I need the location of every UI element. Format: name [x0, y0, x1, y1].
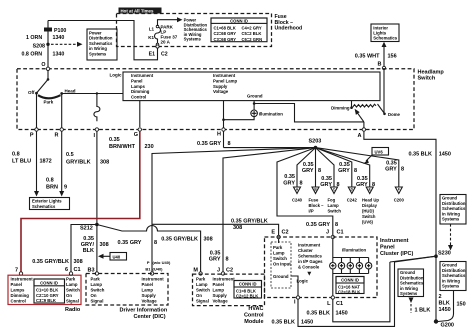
svg-text:BLK: BLK — [439, 301, 450, 307]
svg-text:I/P: I/P — [309, 209, 314, 214]
svg-text:Underhood: Underhood — [275, 25, 303, 31]
svg-text:C2=68 GRY: C2=68 GRY — [214, 31, 237, 36]
svg-text:Block –: Block – — [309, 203, 325, 208]
svg-text:Ground: Ground — [247, 94, 263, 99]
svg-text:0.35 GRY: 0.35 GRY — [118, 240, 142, 246]
svg-text:Systems: Systems — [442, 217, 460, 222]
svg-text:M: M — [193, 268, 198, 274]
svg-text:H: H — [217, 132, 221, 138]
svg-text:Systems: Systems — [400, 291, 418, 296]
svg-text:Head: Head — [65, 89, 76, 94]
svg-text:C1=68 BLK: C1=68 BLK — [214, 25, 236, 30]
svg-text:BRN: BRN — [46, 185, 58, 191]
svg-text:Cluster (IPC): Cluster (IPC) — [380, 251, 413, 257]
svg-text:C3=9 BLK: C3=9 BLK — [36, 298, 56, 303]
svg-text:Instrument: Instrument — [142, 277, 165, 282]
svg-text:GRY: GRY — [320, 182, 332, 188]
svg-text:1 ORN: 1 ORN — [26, 35, 42, 41]
svg-text:K1: K1 — [148, 35, 154, 40]
svg-text:Dimming: Dimming — [331, 106, 350, 111]
svg-text:BRN/WHT: BRN/WHT — [109, 144, 136, 150]
svg-text:P: P — [30, 133, 34, 139]
svg-text:E1: E1 — [149, 52, 155, 58]
svg-text:Voltage: Voltage — [213, 299, 229, 304]
svg-text:Panel: Panel — [11, 282, 22, 287]
svg-text:C1: C1 — [337, 230, 344, 236]
svg-text:1450: 1450 — [439, 307, 451, 313]
svg-text:C2: C2 — [161, 52, 168, 58]
svg-text:Panel: Panel — [213, 282, 224, 287]
svg-text:U40: U40 — [113, 254, 121, 259]
svg-text:Park: Park — [66, 277, 76, 282]
svg-text:Control: Control — [131, 95, 146, 100]
svg-text:Lamp: Lamp — [196, 282, 208, 287]
svg-text:L1: L1 — [149, 26, 155, 31]
svg-text:Panel Lamp: Panel Lamp — [213, 78, 237, 83]
svg-text:C6=2 GRN: C6=2 GRN — [242, 37, 263, 42]
svg-text:0.5: 0.5 — [66, 152, 74, 158]
svg-text:Lamp: Lamp — [213, 288, 225, 293]
svg-text:Logic: Logic — [110, 73, 122, 78]
svg-text:& Console: & Console — [298, 265, 320, 270]
svg-text:HVAC: HVAC — [248, 306, 263, 312]
svg-text:P100: P100 — [54, 28, 66, 34]
svg-text:Voltage: Voltage — [213, 89, 229, 94]
svg-text:0.35 GRY/BLK: 0.35 GRY/BLK — [161, 237, 198, 243]
svg-text:R: R — [55, 133, 59, 139]
svg-text:8: 8 — [318, 168, 321, 174]
svg-text:Lamps: Lamps — [11, 288, 25, 293]
svg-text:Switch: Switch — [196, 288, 210, 293]
svg-text:150: 150 — [457, 302, 466, 308]
svg-text:Park: Park — [91, 277, 101, 282]
svg-text:Lamp: Lamp — [91, 282, 103, 287]
svg-text:Schematics: Schematics — [32, 204, 56, 209]
svg-text:Illumination: Illumination — [259, 112, 283, 117]
svg-text:E: E — [271, 230, 275, 236]
svg-text:308: 308 — [74, 259, 83, 265]
svg-text:C1: C1 — [74, 267, 81, 273]
svg-text:E: E — [369, 188, 371, 192]
svg-text:1450: 1450 — [301, 320, 313, 326]
svg-text:C2=12 BLK: C2=12 BLK — [236, 294, 258, 299]
svg-text:0.35 GRY: 0.35 GRY — [306, 222, 330, 228]
svg-text:Hot at All Times: Hot at All Times — [121, 9, 154, 14]
svg-text:S208: S208 — [33, 44, 45, 50]
svg-text:GRY/BLK: GRY/BLK — [66, 160, 91, 166]
svg-text:0.35 WHT: 0.35 WHT — [355, 54, 380, 60]
svg-text:Switch: Switch — [273, 256, 287, 261]
svg-text:C3=68 GRY: C3=68 GRY — [214, 37, 237, 42]
svg-text:6: 6 — [65, 267, 68, 273]
svg-text:On: On — [66, 293, 72, 298]
svg-text:Instrument: Instrument — [11, 277, 34, 282]
svg-text:0.35 GRY: 0.35 GRY — [197, 141, 221, 147]
svg-text:A: A — [358, 133, 362, 139]
svg-text:C2=18 BLK: C2=18 BLK — [338, 289, 360, 294]
svg-text:B3: B3 — [87, 268, 94, 274]
svg-text:G200: G200 — [441, 323, 454, 329]
svg-text:J: J — [217, 268, 220, 274]
svg-text:GRY: GRY — [356, 182, 368, 188]
svg-text:Signal: Signal — [196, 299, 209, 304]
svg-text:156: 156 — [388, 54, 397, 60]
svg-text:Display: Display — [362, 203, 378, 208]
svg-text:S230: S230 — [438, 251, 451, 257]
svg-text:8: 8 — [228, 141, 231, 147]
svg-text:C1: C1 — [336, 301, 343, 307]
svg-text:Illumination: Illumination — [342, 248, 366, 253]
svg-text:Instrument: Instrument — [213, 73, 236, 78]
svg-text:1450: 1450 — [336, 311, 348, 317]
svg-text:B: B — [378, 62, 382, 68]
svg-text:LT BLU: LT BLU — [12, 159, 31, 165]
svg-text:C4=2 GRY: C4=2 GRY — [242, 25, 262, 30]
svg-text:0.35 GRY/BLK: 0.35 GRY/BLK — [32, 259, 69, 265]
svg-text:C242: C242 — [347, 198, 358, 203]
svg-text:Lamp: Lamp — [328, 203, 340, 208]
svg-text:Lamp: Lamp — [273, 251, 285, 256]
svg-text:Lamp: Lamp — [142, 288, 154, 293]
svg-text:C240: C240 — [292, 198, 303, 203]
svg-text:BLK: BLK — [83, 248, 94, 254]
svg-text:0.35 GRY/BLK: 0.35 GRY/BLK — [231, 218, 268, 224]
svg-text:Switch: Switch — [418, 76, 436, 82]
svg-text:Module: Module — [244, 319, 263, 325]
svg-text:GRY: GRY — [209, 257, 221, 263]
svg-text:0.35 BLK: 0.35 BLK — [306, 311, 330, 317]
svg-text:Panel: Panel — [131, 78, 142, 83]
svg-text:308: 308 — [100, 160, 109, 166]
svg-text:Systems: Systems — [442, 284, 460, 289]
svg-text:F: F — [398, 188, 400, 192]
svg-text:B1: B1 — [145, 266, 151, 271]
svg-text:J: J — [326, 230, 329, 236]
svg-text:(HUD): (HUD) — [362, 209, 374, 214]
svg-text:Cluster: Cluster — [298, 248, 313, 253]
svg-text:On: On — [91, 293, 97, 298]
svg-text:CONN ID: CONN ID — [239, 282, 257, 287]
svg-text:Radio: Radio — [65, 307, 81, 313]
svg-text:GRY: GRY — [338, 168, 350, 174]
svg-text:Head Up: Head Up — [362, 198, 379, 203]
svg-text:Instrument: Instrument — [213, 277, 236, 282]
svg-text:8: 8 — [337, 182, 340, 188]
svg-text:20 A: 20 A — [161, 40, 171, 45]
svg-text:0.35: 0.35 — [109, 137, 120, 143]
svg-text:1872: 1872 — [40, 159, 52, 165]
svg-text:G: G — [134, 132, 138, 138]
svg-text:Logic: Logic — [297, 279, 309, 284]
svg-text:8: 8 — [335, 222, 338, 228]
svg-text:0.35: 0.35 — [284, 174, 295, 180]
svg-text:Schematics: Schematics — [373, 36, 397, 41]
svg-text:UV6: UV6 — [375, 149, 384, 154]
svg-text:Park: Park — [273, 245, 283, 250]
svg-text:Instrument: Instrument — [380, 238, 409, 244]
svg-text:On: On — [196, 293, 202, 298]
svg-text:Fog: Fog — [328, 198, 336, 203]
svg-text:Voltage: Voltage — [142, 299, 158, 304]
svg-text:C1=10 BLK: C1=10 BLK — [36, 288, 58, 293]
svg-text:Fuse: Fuse — [309, 198, 319, 203]
svg-text:308: 308 — [233, 225, 242, 231]
svg-text:Driver Information: Driver Information — [120, 308, 168, 314]
svg-text:Supply: Supply — [213, 293, 228, 298]
svg-text:8: 8 — [354, 168, 357, 174]
svg-text:0.8: 0.8 — [46, 178, 54, 184]
svg-text:9: 9 — [64, 185, 67, 191]
svg-text:Dome: Dome — [388, 112, 401, 117]
svg-text:Switch: Switch — [362, 214, 376, 219]
svg-text:GRY: GRY — [302, 168, 314, 174]
svg-text:C200: C200 — [394, 198, 405, 203]
svg-text:0.35 BLK: 0.35 BLK — [271, 320, 295, 326]
svg-text:CONN ID: CONN ID — [40, 280, 58, 285]
svg-text:2: 2 — [439, 294, 442, 300]
svg-text:8: 8 — [372, 182, 375, 188]
svg-text:Lamp: Lamp — [66, 282, 78, 287]
svg-text:CONN ID: CONN ID — [230, 19, 248, 24]
svg-text:0.8: 0.8 — [12, 152, 20, 158]
svg-text:Instrument: Instrument — [298, 243, 321, 248]
svg-text:GRY: GRY — [283, 181, 295, 187]
svg-text:1340: 1340 — [53, 35, 65, 41]
svg-text:Systems: Systems — [184, 37, 202, 42]
svg-text:Signal: Signal — [66, 299, 79, 304]
svg-text:Control: Control — [11, 299, 26, 304]
svg-text:Park: Park — [196, 277, 206, 282]
svg-text:C2: C2 — [226, 268, 233, 274]
svg-text:0.8 ORN: 0.8 ORN — [22, 52, 43, 58]
svg-text:On Input: On Input — [273, 262, 291, 267]
svg-text:O: O — [41, 62, 45, 68]
svg-text:(U40): (U40) — [153, 266, 164, 271]
svg-text:Park: Park — [44, 100, 54, 105]
svg-text:Panel: Panel — [380, 245, 395, 251]
svg-text:Switch: Switch — [66, 288, 80, 293]
svg-text:GRY: GRY — [385, 166, 397, 172]
svg-text:Lamps: Lamps — [131, 84, 145, 89]
svg-text:Ground: Ground — [273, 274, 289, 279]
svg-text:(UV6): (UV6) — [362, 220, 374, 225]
svg-text:Supply: Supply — [142, 293, 157, 298]
svg-text:Off: Off — [28, 90, 35, 95]
svg-text:Panel: Panel — [142, 282, 153, 287]
svg-text:Systems: Systems — [89, 51, 107, 56]
svg-text:8: 8 — [226, 257, 229, 263]
svg-text:8: 8 — [154, 240, 157, 246]
svg-text:C2: C2 — [282, 230, 289, 236]
svg-text:C2=10 GRY: C2=10 GRY — [36, 293, 59, 298]
svg-text:308: 308 — [100, 242, 109, 248]
svg-text:S212: S212 — [80, 226, 93, 232]
svg-text:CONN ID: CONN ID — [341, 278, 359, 283]
svg-text:1450: 1450 — [439, 152, 451, 158]
svg-text:1 BLK: 1 BLK — [415, 308, 431, 314]
svg-text:Switch: Switch — [328, 209, 342, 214]
svg-text:Center (DIC): Center (DIC) — [134, 314, 166, 320]
svg-text:P: P — [147, 260, 150, 265]
svg-text:308: 308 — [204, 237, 213, 243]
svg-text:C5=2 BLK: C5=2 BLK — [242, 31, 262, 36]
svg-text:in I/P Gages: in I/P Gages — [298, 259, 323, 264]
svg-text:1340: 1340 — [53, 52, 65, 58]
svg-text:8: 8 — [401, 166, 404, 172]
svg-text:Signal: Signal — [91, 299, 104, 304]
svg-text:S203: S203 — [309, 139, 322, 145]
svg-text:Switch: Switch — [91, 288, 105, 293]
svg-text:7: 7 — [15, 268, 18, 274]
svg-text:Dimming: Dimming — [11, 293, 30, 298]
svg-text:0.35 BLK: 0.35 BLK — [408, 152, 432, 158]
svg-text:230: 230 — [145, 144, 154, 150]
svg-text:Control: Control — [244, 313, 264, 319]
svg-text:Instrument: Instrument — [131, 73, 154, 78]
svg-text:(w/o U40): (w/o U40) — [153, 260, 171, 265]
svg-text:Dimming: Dimming — [131, 89, 150, 94]
svg-text:Schematics: Schematics — [298, 254, 322, 259]
svg-text:Supply: Supply — [213, 84, 228, 89]
svg-text:8: 8 — [300, 181, 303, 187]
